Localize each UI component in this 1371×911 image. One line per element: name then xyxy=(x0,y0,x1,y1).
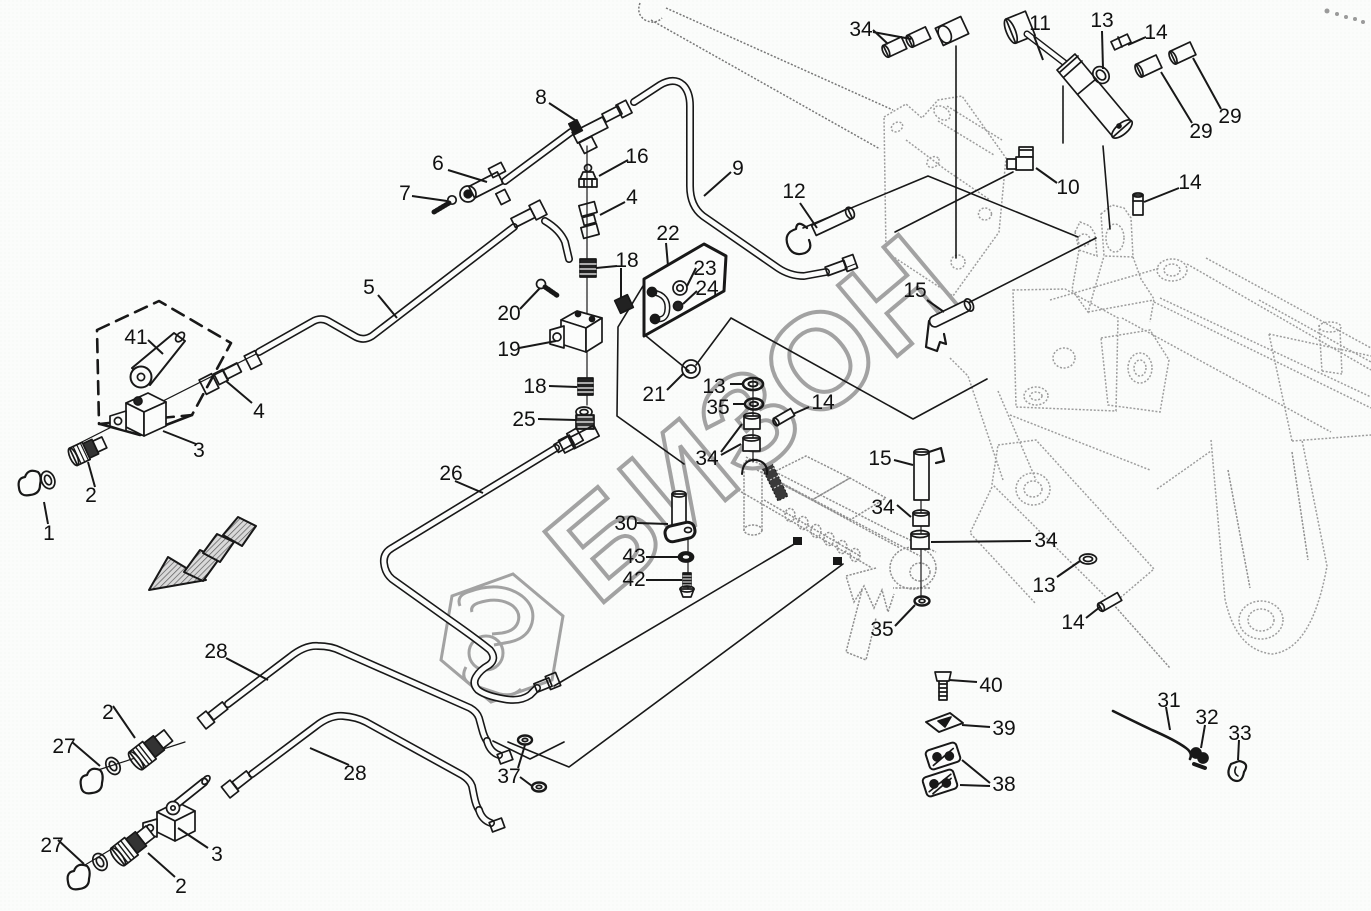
svg-text:38: 38 xyxy=(992,773,1015,796)
svg-text:4: 4 xyxy=(626,186,638,209)
svg-text:13: 13 xyxy=(1090,9,1113,32)
svg-text:13: 13 xyxy=(1032,574,1055,597)
svg-text:24: 24 xyxy=(695,277,719,300)
svg-text:4: 4 xyxy=(253,400,265,423)
svg-text:26: 26 xyxy=(439,462,462,485)
svg-text:1: 1 xyxy=(43,522,55,545)
svg-text:30: 30 xyxy=(614,512,637,535)
svg-text:43: 43 xyxy=(622,545,645,568)
svg-text:15: 15 xyxy=(868,447,891,470)
svg-text:13: 13 xyxy=(702,375,725,398)
svg-text:14: 14 xyxy=(1144,21,1168,44)
svg-text:2: 2 xyxy=(85,484,97,507)
svg-text:8: 8 xyxy=(535,86,547,109)
svg-text:7: 7 xyxy=(399,182,411,205)
svg-text:34: 34 xyxy=(1034,529,1058,552)
svg-text:29: 29 xyxy=(1218,105,1241,128)
svg-text:28: 28 xyxy=(343,762,366,785)
svg-text:2: 2 xyxy=(102,701,114,724)
svg-text:29: 29 xyxy=(1189,120,1212,143)
svg-text:21: 21 xyxy=(642,383,665,406)
svg-text:19: 19 xyxy=(497,338,520,361)
svg-text:9: 9 xyxy=(732,157,744,180)
svg-text:2: 2 xyxy=(175,875,187,898)
svg-text:10: 10 xyxy=(1056,176,1079,199)
svg-text:15: 15 xyxy=(903,279,926,302)
svg-text:40: 40 xyxy=(979,674,1002,697)
svg-text:39: 39 xyxy=(992,717,1015,740)
svg-text:16: 16 xyxy=(625,145,648,168)
svg-text:22: 22 xyxy=(656,222,679,245)
svg-text:41: 41 xyxy=(124,326,147,349)
svg-text:32: 32 xyxy=(1195,706,1218,729)
svg-text:6: 6 xyxy=(432,152,444,175)
svg-text:18: 18 xyxy=(523,375,546,398)
svg-text:27: 27 xyxy=(52,735,75,758)
svg-text:14: 14 xyxy=(1178,171,1202,194)
svg-text:35: 35 xyxy=(706,396,729,419)
svg-text:33: 33 xyxy=(1228,722,1251,745)
svg-text:14: 14 xyxy=(1061,611,1085,634)
svg-text:25: 25 xyxy=(512,408,535,431)
svg-text:34: 34 xyxy=(849,18,873,41)
svg-text:5: 5 xyxy=(363,276,375,299)
svg-text:12: 12 xyxy=(782,180,805,203)
svg-text:34: 34 xyxy=(695,447,719,470)
svg-text:34: 34 xyxy=(871,496,895,519)
svg-text:37: 37 xyxy=(497,765,520,788)
svg-text:3: 3 xyxy=(211,843,223,866)
svg-text:42: 42 xyxy=(622,568,645,591)
svg-text:27: 27 xyxy=(40,834,63,857)
svg-text:35: 35 xyxy=(870,618,893,641)
svg-text:14: 14 xyxy=(811,391,835,414)
svg-text:18: 18 xyxy=(615,249,638,272)
svg-text:31: 31 xyxy=(1157,689,1180,712)
svg-text:28: 28 xyxy=(204,640,227,663)
svg-text:20: 20 xyxy=(497,302,520,325)
svg-text:11: 11 xyxy=(1029,12,1051,35)
svg-text:3: 3 xyxy=(193,439,205,462)
